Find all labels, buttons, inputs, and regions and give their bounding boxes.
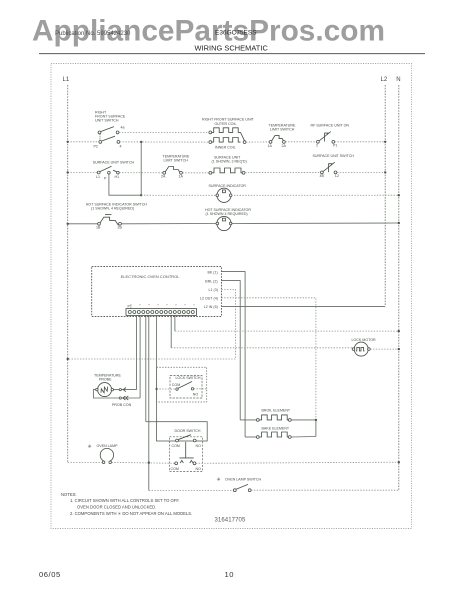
svg-text:✳: ✳ <box>88 444 92 450</box>
svg-text:INNER COIL: INNER COIL <box>215 146 236 150</box>
svg-text:DOOR SWITCH: DOOR SWITCH <box>175 429 201 433</box>
svg-text:BK (1): BK (1) <box>208 270 218 274</box>
svg-text:LOCK SWITCH: LOCK SWITCH <box>176 376 201 380</box>
L1 bus wire <box>67 85 69 463</box>
door switch box <box>157 422 208 441</box>
lock assembly dashed box <box>157 367 207 402</box>
connector probe upper <box>119 388 126 392</box>
switch lock <box>172 382 199 397</box>
wire L1 to switch row2 <box>68 172 98 174</box>
resistor broil element <box>256 415 291 421</box>
wire lock no stub <box>194 388 207 390</box>
title underline <box>39 53 425 55</box>
lamp hot surface indicator <box>216 216 232 230</box>
wire L2 OUT dotted to elements <box>221 298 316 420</box>
L2 bus wire <box>384 85 386 306</box>
wire strip to N mid vertical <box>174 315 176 331</box>
wire door feed to box corner <box>146 421 157 423</box>
svg-text:1A: 1A <box>179 175 184 179</box>
connector probe lower <box>119 396 128 400</box>
svg-text:OUTER COIL: OUTER COIL <box>215 122 237 126</box>
wire lamp to N row4 <box>231 222 399 225</box>
wire lock motor feed horizontal <box>171 347 353 349</box>
thermal switch hot surface indicator <box>96 215 122 230</box>
wire bake feed corner <box>245 436 256 438</box>
svg-text:4B: 4B <box>320 174 325 178</box>
svg-text:(1 SHOWN, 3 REQ'D): (1 SHOWN, 3 REQ'D) <box>212 160 247 164</box>
svg-text:OVEN LAMP SWITCH: OVEN LAMP SWITCH <box>225 478 261 482</box>
junction N mid wire <box>398 330 400 332</box>
svg-text:✳: ✳ <box>217 477 221 483</box>
wire switch to L2 row2 <box>337 171 385 173</box>
svg-text:316417705: 316417705 <box>215 517 246 523</box>
svg-text:L1 (3): L1 (3) <box>209 288 218 292</box>
svg-text:UNIT SWITCH: UNIT SWITCH <box>95 119 119 123</box>
resistor bake element <box>256 432 291 438</box>
wire probe lower loop <box>93 390 140 398</box>
svg-text:L1: L1 <box>96 175 100 179</box>
wire lamp junction down to switch row <box>149 490 234 492</box>
switch right front surface unit (DP) <box>94 126 125 149</box>
thermal switch temperature limit row2 <box>161 167 183 179</box>
label temperature limit switch row2 <box>163 155 190 163</box>
notes block <box>61 492 192 516</box>
resistor inner coil <box>209 138 246 144</box>
junction lock motor N <box>398 348 400 350</box>
terminal strip P1 <box>126 304 197 315</box>
svg-text:4a: 4a <box>121 126 125 130</box>
wire bake to L2out vertical <box>291 436 316 439</box>
EOC box <box>92 267 222 317</box>
label right front surface unit coils <box>202 118 255 150</box>
wire strip to probe lower <box>139 315 141 398</box>
wire row3 to lamp <box>141 194 217 196</box>
N bus wire <box>398 85 400 491</box>
svg-text:SURFACE UNIT SWITCH: SURFACE UNIT SWITCH <box>93 161 135 165</box>
svg-text:4: 4 <box>120 145 122 149</box>
page frame border <box>51 64 412 529</box>
resistor surface unit <box>209 168 245 174</box>
svg-text:L2 IN (5): L2 IN (5) <box>204 305 218 309</box>
svg-text:OVEN LAMP: OVEN LAMP <box>97 444 119 448</box>
svg-text:1B: 1B <box>96 226 101 230</box>
svg-text:2A: 2A <box>161 175 166 179</box>
wire lamp to N row3 <box>231 194 399 196</box>
wire L1 to oven lamp <box>68 462 103 464</box>
switch surface unit L1/P/H1 <box>96 166 119 180</box>
junction on N row4 <box>398 222 400 224</box>
svg-text:2B: 2B <box>118 226 123 230</box>
switch surface unit right <box>320 162 340 178</box>
arrow contact left <box>180 460 183 463</box>
switch oven lamp <box>233 484 251 491</box>
wire strip to door switch top <box>145 315 147 421</box>
wire L1 dashed from EOC to L1 bus <box>68 289 236 359</box>
svg-text:BROIL ELEMENT: BROIL ELEMENT <box>262 408 291 412</box>
svg-text:NOTES:: NOTES: <box>61 492 77 497</box>
wire BRL to broil element feed <box>221 281 240 420</box>
wire strip to oven lamp line <box>148 315 150 490</box>
wire RF switch to L2 <box>335 141 386 143</box>
svg-text:NO: NO <box>196 444 202 448</box>
junction on N row3 <box>398 194 400 196</box>
wire temp limit to RF indicator switch <box>285 141 317 143</box>
svg-text:BRL (2): BRL (2) <box>205 279 217 283</box>
junction L1 bus dashed wire <box>67 358 69 360</box>
svg-text:2. COMPONENTS WITH ✳ DO NOT: 2. COMPONENTS WITH ✳ DO NOT APPEAR ON AL… <box>70 511 192 516</box>
label temperature limit switch row1 <box>269 124 296 132</box>
svg-text:PROBE: PROBE <box>99 378 112 382</box>
label surface unit element <box>212 156 247 164</box>
svg-text:OVEN DOOR CLOSED AND UNLOCKED.: OVEN DOOR CLOSED AND UNLOCKED. <box>77 504 156 509</box>
lamp surface indicator <box>216 188 232 202</box>
svg-text:COM: COM <box>171 467 179 471</box>
svg-text:P: P <box>104 176 107 180</box>
svg-text:(1 SHOWN 4 REQUIRED): (1 SHOWN 4 REQUIRED) <box>206 212 248 216</box>
arrow contact right <box>190 460 193 463</box>
svg-text:P2: P2 <box>94 145 98 149</box>
svg-text:LIMIT SWITCH: LIMIT SWITCH <box>270 128 295 132</box>
junction row1 lower x141 <box>140 141 142 143</box>
junction N oven lamp row <box>398 461 400 463</box>
junction oven lamp line <box>148 462 150 464</box>
svg-text:COM: COM <box>172 444 180 448</box>
wire inner coil to temp limit switch row1 <box>246 141 270 143</box>
label temperature probe <box>94 374 121 382</box>
svg-text:L1: L1 <box>63 77 70 83</box>
junction broil L2out <box>315 419 317 421</box>
switch door lower contacts <box>171 462 202 471</box>
wire to lock com <box>157 388 176 390</box>
wire H1 to temp limit row2 <box>119 172 163 174</box>
wire L1 to row4 switch <box>68 223 98 225</box>
resistor outer coil <box>209 128 245 141</box>
motor lock <box>352 342 370 356</box>
wire row1 lower to inner coil <box>120 141 209 143</box>
wire row1 upper to outer coil <box>119 131 209 133</box>
svg-text:2: 2 <box>316 144 318 148</box>
label hot surface indicator switch <box>86 202 148 210</box>
wire N mid horizontal <box>175 330 399 332</box>
wire P drop to row3 <box>109 174 141 195</box>
wire strip to probe upper <box>136 315 138 389</box>
svg-text:LIMIT SWITCH: LIMIT SWITCH <box>164 159 189 163</box>
wire door no to N <box>196 462 399 463</box>
svg-text:L2: L2 <box>381 77 388 83</box>
junction on L2 row1 <box>384 141 386 143</box>
probe resistor circle <box>96 383 114 397</box>
wire vertical x141 row1 to row3 <box>140 142 142 195</box>
junction on L1 row1 <box>67 141 69 143</box>
wire lamp switch to N end <box>251 489 399 491</box>
wire probe upper to connector <box>114 389 137 391</box>
switch RF surface unit on <box>316 132 337 148</box>
label hot surface indicator <box>205 208 251 216</box>
wire strip to lock motor vertical <box>170 315 172 347</box>
svg-text:N: N <box>396 77 400 83</box>
wire row4 switch to lamp <box>121 223 216 225</box>
wire oven lamp to door switch com <box>112 461 175 464</box>
svg-text:COM: COM <box>172 383 180 387</box>
svg-text:SURFACE UNIT SWITCH: SURFACE UNIT SWITCH <box>313 154 355 158</box>
svg-text:1. CIRCUIT SHOWN WITH ALL CON: 1. CIRCUIT SHOWN WITH ALL CONTROLS SET T… <box>70 498 180 503</box>
junction on L1 row2 <box>67 171 69 173</box>
svg-text:H1: H1 <box>115 175 120 179</box>
svg-text:LOCK MOTOR: LOCK MOTOR <box>352 338 376 342</box>
svg-text:NO: NO <box>193 392 199 396</box>
svg-text:E36GC75ESS: E36GC75ESS <box>215 30 257 37</box>
svg-text:L2: L2 <box>335 174 339 178</box>
wire broil to L2out vertical <box>291 419 316 421</box>
lamp oven (loop symbol) <box>100 448 113 463</box>
wire L2 IN to L2 bus <box>221 305 385 307</box>
svg-text:BAKE ELEMENT: BAKE ELEMENT <box>262 427 290 431</box>
svg-text:(1 SHOWN, 4 REQUIRED): (1 SHOWN, 4 REQUIRED) <box>91 206 134 210</box>
wire temp limit row2 to element <box>182 172 209 174</box>
door switch dashed box <box>170 437 203 472</box>
wire lock motor to N <box>370 348 399 350</box>
wire strip to lock switch and door com <box>156 315 158 421</box>
svg-text:L2 OUT (4): L2 OUT (4) <box>200 297 218 301</box>
svg-text:10: 10 <box>225 570 235 579</box>
junction on L2 row2 <box>384 171 386 173</box>
switch door upper <box>172 435 202 448</box>
svg-text:1A: 1A <box>268 144 273 148</box>
svg-text:PROB CON: PROB CON <box>112 403 132 407</box>
junction on L1 row4 <box>67 223 69 225</box>
svg-text:RF SURFACE UNIT ON: RF SURFACE UNIT ON <box>311 124 350 128</box>
svg-text:SURFACE INDICATOR: SURFACE INDICATOR <box>209 184 247 188</box>
svg-text:NO: NO <box>196 467 202 471</box>
junction row3 x141 <box>140 194 142 196</box>
wire L2 OUT broil to bake segment <box>315 419 317 436</box>
thermal switch temperature limit row1 <box>268 136 287 148</box>
wire BK to bake element feed <box>221 272 245 437</box>
junction lock com feed <box>155 388 157 390</box>
link door switch poles <box>179 442 193 458</box>
wire element to surface unit switch right <box>245 171 321 173</box>
svg-text:Publication No. 5995424230: Publication No. 5995424230 <box>55 31 131 37</box>
svg-text:ELECTRONIC OVEN CONTROL: ELECTRONIC OVEN CONTROL <box>121 274 181 279</box>
svg-text:06/05: 06/05 <box>39 570 61 579</box>
svg-text:2A: 2A <box>282 144 287 148</box>
svg-text:P1: P1 <box>333 144 337 148</box>
wire broil feed corner <box>240 419 256 421</box>
svg-text:WIRING SCHEMATIC: WIRING SCHEMATIC <box>195 44 269 53</box>
label right front surface unit switch <box>95 111 126 123</box>
lock switch box <box>170 376 202 399</box>
wire L1 to switch row1 <box>68 141 99 143</box>
